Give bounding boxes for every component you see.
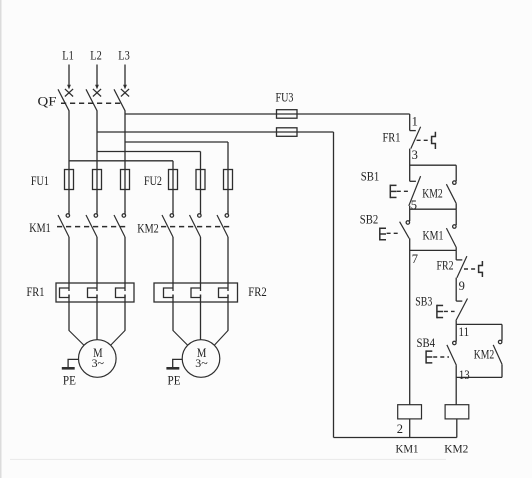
svg-text:PE: PE: [168, 373, 181, 387]
svg-text:KM2: KM2: [474, 347, 495, 361]
svg-text:KM1: KM1: [396, 441, 419, 455]
svg-text:PE: PE: [63, 373, 76, 387]
svg-text:3~: 3~: [195, 356, 208, 370]
svg-text:QF: QF: [38, 94, 57, 109]
svg-text:FU2: FU2: [144, 174, 162, 188]
svg-text:L2: L2: [90, 49, 102, 63]
svg-text:2: 2: [397, 422, 403, 436]
svg-text:9: 9: [459, 279, 465, 293]
svg-text:FU3: FU3: [276, 90, 294, 104]
svg-text:KM2: KM2: [444, 441, 468, 455]
svg-text:L3: L3: [118, 49, 130, 63]
svg-text:3~: 3~: [92, 356, 105, 370]
svg-text:FR1: FR1: [383, 130, 401, 144]
svg-text:11: 11: [459, 325, 470, 339]
svg-text:FR2: FR2: [248, 285, 267, 299]
svg-text:KM1: KM1: [423, 228, 444, 242]
svg-text:7: 7: [412, 252, 418, 266]
svg-text:SB3: SB3: [415, 295, 432, 309]
svg-text:1: 1: [412, 114, 418, 128]
svg-text:KM2: KM2: [422, 186, 443, 200]
svg-text:L1: L1: [62, 49, 74, 63]
svg-text:SB2: SB2: [360, 212, 379, 226]
svg-text:SB4: SB4: [417, 336, 436, 350]
svg-text:FR2: FR2: [437, 259, 454, 273]
svg-text:13: 13: [459, 368, 470, 382]
svg-text:5: 5: [411, 198, 417, 212]
svg-text:FU1: FU1: [31, 174, 49, 188]
svg-text:SB1: SB1: [361, 169, 380, 183]
svg-text:KM1: KM1: [29, 221, 51, 235]
svg-text:FR1: FR1: [27, 285, 45, 299]
svg-text:3: 3: [412, 148, 418, 162]
svg-text:KM2: KM2: [137, 221, 159, 235]
